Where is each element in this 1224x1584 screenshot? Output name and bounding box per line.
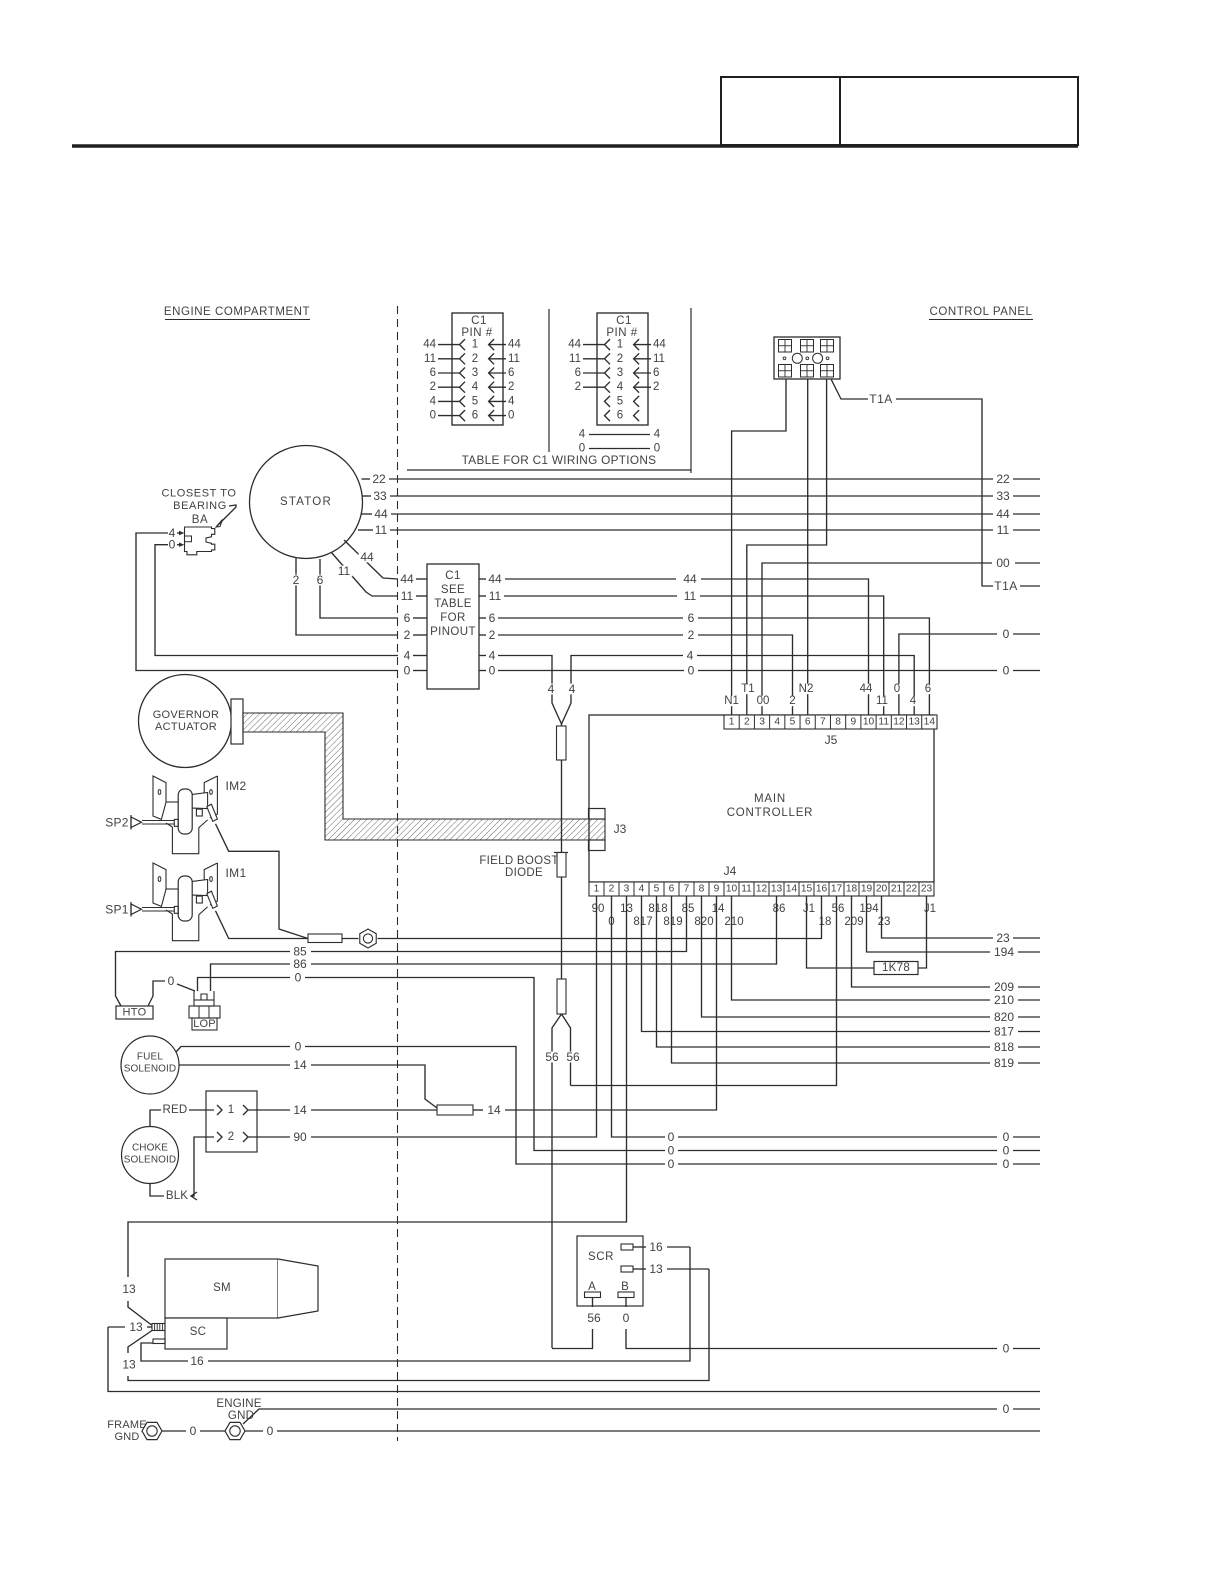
- wire 44 (stator to C1): [344, 540, 398, 579]
- svg-text:SP2: SP2: [105, 815, 129, 829]
- svg-text:12: 12: [893, 717, 905, 728]
- svg-text:BEARING: BEARING: [173, 500, 227, 512]
- svg-text:J1: J1: [924, 903, 936, 915]
- fuse F1: [557, 724, 567, 852]
- wire 0 (HTO to LOP): [148, 974, 195, 1006]
- svg-text:6: 6: [508, 367, 514, 379]
- svg-text:19: 19: [861, 884, 873, 895]
- svg-text:13: 13: [129, 1320, 143, 1334]
- wire 22: [362, 472, 1041, 486]
- svg-text:RED: RED: [163, 1104, 188, 1116]
- choke solenoid: [122, 1127, 179, 1184]
- connector C1 wiring table 2: [568, 313, 666, 425]
- svg-text:J1: J1: [803, 903, 815, 915]
- wire T1 (T1A to J5-2): [747, 379, 827, 715]
- svg-text:2: 2: [789, 695, 795, 707]
- svg-text:1: 1: [472, 339, 478, 351]
- generator stator: [250, 446, 363, 559]
- svg-text:2: 2: [430, 381, 436, 393]
- svg-text:56: 56: [545, 1050, 559, 1064]
- svg-text:0: 0: [169, 538, 176, 552]
- node 6 (C1 left): [402, 611, 427, 625]
- svg-text:4: 4: [774, 717, 780, 728]
- svg-text:14: 14: [924, 717, 936, 728]
- wire 2 (C1 to J5-5): [479, 628, 793, 715]
- svg-text:0: 0: [295, 971, 302, 985]
- wire 56 (SCR-A): [552, 1298, 602, 1349]
- svg-text:90: 90: [592, 903, 605, 915]
- wire 817 (J4-4): [642, 896, 1041, 1039]
- wire 13 (splice to SCR-B): [121, 1269, 709, 1381]
- svg-text:3: 3: [472, 367, 478, 379]
- wire 0 (LOP to panel): [198, 971, 1041, 1158]
- resistor (choke lead): [437, 1105, 473, 1115]
- svg-text:2: 2: [293, 573, 300, 587]
- svg-text:56: 56: [832, 903, 845, 915]
- svg-text:20: 20: [876, 884, 888, 895]
- svg-text:CLOSEST TO: CLOSEST TO: [161, 488, 236, 500]
- svg-text:TABLE: TABLE: [434, 598, 472, 610]
- svg-text:SC: SC: [190, 1326, 207, 1338]
- svg-text:818: 818: [994, 1040, 1014, 1054]
- wire 13 (splice to frame strap): [108, 1320, 1040, 1392]
- svg-text:13: 13: [122, 1282, 136, 1296]
- fuel solenoid: [121, 1036, 179, 1094]
- ignition module IM1: [105, 863, 246, 941]
- svg-text:4: 4: [654, 429, 661, 441]
- svg-text:2: 2: [575, 381, 581, 393]
- svg-text:B: B: [621, 1281, 629, 1293]
- svg-text:14: 14: [293, 1103, 307, 1117]
- svg-text:86: 86: [773, 903, 786, 915]
- svg-text:0: 0: [295, 1040, 302, 1054]
- svg-text:GOVERNOR: GOVERNOR: [153, 709, 220, 721]
- svg-text:44: 44: [360, 550, 374, 564]
- svg-text:1: 1: [617, 339, 623, 351]
- wire labels below J4: [590, 903, 938, 928]
- svg-text:A: A: [588, 1281, 596, 1293]
- svg-text:J5: J5: [825, 733, 838, 747]
- wire 0 (engine gnd to panel): [243, 1402, 1040, 1424]
- wire 13 (J4-3 to splice): [121, 896, 627, 1325]
- svg-text:818: 818: [648, 903, 667, 915]
- connector J3: [589, 809, 627, 851]
- svg-text:10: 10: [726, 884, 738, 895]
- svg-text:11: 11: [684, 589, 697, 603]
- diode D2 (56 feed): [557, 979, 566, 1014]
- wire 11 (C1 to J5-11): [479, 589, 884, 715]
- wire 14 (to J4-9): [473, 896, 717, 1117]
- wire 0 (frame to engine gnd): [162, 1424, 225, 1438]
- svg-text:MAIN: MAIN: [754, 793, 786, 805]
- svg-text:T1A: T1A: [994, 579, 1018, 593]
- svg-text:0: 0: [168, 974, 175, 988]
- svg-text:6: 6: [575, 367, 581, 379]
- svg-text:0: 0: [668, 1144, 675, 1158]
- svg-text:1: 1: [228, 1104, 234, 1116]
- svg-text:6: 6: [925, 683, 931, 695]
- svg-text:C1: C1: [471, 315, 487, 327]
- svg-text:23: 23: [878, 916, 891, 928]
- harness J3 (hatched): [243, 713, 605, 840]
- svg-text:ENGINE: ENGINE: [216, 1398, 261, 1410]
- svg-text:ENGINE COMPARTMENT: ENGINE COMPARTMENT: [164, 306, 310, 318]
- svg-text:44: 44: [508, 339, 521, 351]
- wire 6 (C1 to J5-14): [479, 611, 929, 715]
- svg-text:10: 10: [863, 717, 875, 728]
- wire N1 (T1A to J5-1): [732, 379, 786, 715]
- svg-text:56: 56: [566, 1050, 580, 1064]
- svg-text:5: 5: [790, 717, 796, 728]
- main controller: [589, 715, 934, 882]
- svg-text:0: 0: [1003, 1342, 1010, 1356]
- svg-text:6: 6: [653, 367, 659, 379]
- svg-text:21: 21: [891, 884, 903, 895]
- svg-text:4: 4: [430, 395, 437, 407]
- svg-text:0: 0: [623, 1311, 630, 1325]
- svg-text:13: 13: [908, 717, 920, 728]
- svg-text:85: 85: [682, 903, 695, 915]
- svg-text:4: 4: [569, 682, 576, 696]
- svg-text:2: 2: [404, 628, 411, 642]
- wire 33: [363, 489, 1041, 503]
- svg-text:23: 23: [996, 931, 1010, 945]
- wire 44 (C1 to J5-10): [479, 572, 869, 715]
- wire 11 (stator to panel): [358, 523, 1040, 537]
- svg-text:2: 2: [472, 353, 478, 365]
- svg-text:DIODE: DIODE: [505, 867, 543, 879]
- svg-text:8: 8: [699, 884, 705, 895]
- node 11 (C1 left): [399, 589, 427, 603]
- svg-text:13: 13: [771, 884, 783, 895]
- svg-text:194: 194: [994, 945, 1014, 959]
- wire 90 (choke pin 2 to J4-1): [248, 896, 597, 1144]
- resistor (ignition lead): [308, 934, 342, 943]
- svg-text:16: 16: [190, 1354, 204, 1368]
- svg-text:22: 22: [372, 472, 386, 486]
- svg-text:16: 16: [649, 1240, 663, 1254]
- svg-text:00: 00: [996, 556, 1010, 570]
- wire 194 (J4-19): [867, 896, 1041, 959]
- svg-text:T1A: T1A: [869, 392, 893, 406]
- svg-text:11: 11: [876, 695, 888, 707]
- svg-text:820: 820: [694, 916, 713, 928]
- svg-text:11: 11: [878, 717, 889, 728]
- svg-text:2: 2: [228, 1131, 234, 1143]
- svg-text:11: 11: [338, 564, 351, 578]
- wire 86 (LOP to J4-13): [211, 896, 777, 991]
- svg-text:SM: SM: [213, 1282, 231, 1294]
- svg-text:HTO: HTO: [123, 1007, 147, 1019]
- svg-text:4: 4: [404, 649, 411, 663]
- svg-text:22: 22: [996, 472, 1010, 486]
- svg-text:18: 18: [846, 884, 858, 895]
- svg-text:0: 0: [489, 664, 496, 678]
- svg-text:44: 44: [996, 507, 1010, 521]
- svg-text:11: 11: [401, 589, 414, 603]
- svg-text:4: 4: [910, 695, 917, 707]
- svg-text:3: 3: [759, 717, 765, 728]
- wire 00 (J5-3 to panel): [762, 556, 1040, 715]
- svg-text:5: 5: [617, 395, 623, 407]
- svg-text:2: 2: [489, 628, 496, 642]
- engine compartment boundary (dashed): [397, 306, 399, 1441]
- svg-text:3: 3: [624, 884, 630, 895]
- svg-text:PIN #: PIN #: [606, 327, 637, 339]
- svg-text:44: 44: [488, 572, 502, 586]
- wire IM2 to splice: [216, 824, 309, 939]
- svg-text:44: 44: [860, 683, 873, 695]
- svg-text:9: 9: [714, 884, 720, 895]
- svg-text:CONTROLLER: CONTROLLER: [727, 807, 814, 819]
- frame ground: [107, 1419, 162, 1443]
- svg-text:18: 18: [819, 916, 832, 928]
- svg-text:56: 56: [587, 1311, 601, 1325]
- svg-text:11: 11: [569, 353, 581, 365]
- svg-text:14: 14: [786, 884, 798, 895]
- svg-text:0: 0: [1003, 1130, 1010, 1144]
- wire 210 (J4-10): [732, 896, 1041, 1007]
- wire 820 (J4-8): [702, 896, 1041, 1024]
- svg-text:0: 0: [688, 664, 695, 678]
- svg-text:SCR: SCR: [588, 1251, 614, 1263]
- svg-text:6: 6: [669, 884, 675, 895]
- svg-text:820: 820: [994, 1010, 1014, 1024]
- svg-text:8: 8: [835, 717, 841, 728]
- wire 16 (SCR): [633, 1240, 690, 1254]
- svg-text:44: 44: [653, 339, 666, 351]
- connector C1 wiring table 1: [423, 313, 521, 425]
- svg-text:4: 4: [508, 395, 515, 407]
- ignition module IM2: [105, 776, 246, 854]
- svg-text:819: 819: [994, 1056, 1014, 1070]
- wire 13 (SCR): [633, 1262, 709, 1276]
- svg-text:GND: GND: [114, 1431, 139, 1443]
- svg-text:22: 22: [906, 884, 918, 895]
- svg-text:11: 11: [375, 523, 388, 537]
- wire 18 (to J4-16): [378, 896, 822, 939]
- switch HTO: [116, 1006, 153, 1019]
- SCR module: [577, 1236, 643, 1306]
- svg-text:PIN #: PIN #: [461, 327, 492, 339]
- svg-text:4: 4: [617, 381, 624, 393]
- node labels above J5: [723, 683, 932, 707]
- svg-text:6: 6: [617, 410, 623, 422]
- svg-text:13: 13: [122, 1358, 136, 1372]
- svg-text:44: 44: [374, 507, 388, 521]
- wire J1 (J4-15 to 1K78): [807, 896, 875, 968]
- svg-text:817: 817: [994, 1025, 1014, 1039]
- governor actuator: [139, 675, 244, 768]
- svg-text:6: 6: [688, 611, 695, 625]
- svg-text:4: 4: [687, 649, 694, 663]
- wire J1 (J4-23 to 1K78): [918, 896, 927, 968]
- svg-text:817: 817: [633, 916, 652, 928]
- svg-text:6: 6: [317, 573, 324, 587]
- svg-text:FUEL: FUEL: [137, 1052, 164, 1063]
- svg-text:4: 4: [489, 649, 496, 663]
- svg-text:210: 210: [724, 916, 743, 928]
- connector T1A: [774, 337, 840, 379]
- wire 0 (BA): [155, 538, 398, 656]
- wire 85 (HTO to J4-7): [116, 896, 687, 1006]
- wire BLK: [150, 1137, 214, 1202]
- wire 56 pair: [544, 1014, 582, 1348]
- wire 14 (fuel solenoid): [179, 1058, 437, 1108]
- svg-text:0: 0: [1003, 1402, 1010, 1416]
- svg-text:0: 0: [1003, 1144, 1010, 1158]
- nut terminal: [342, 929, 376, 948]
- wire 4 (C1 to J5-13): [571, 649, 914, 716]
- svg-text:17: 17: [831, 884, 843, 895]
- svg-text:2: 2: [653, 381, 659, 393]
- svg-text:2: 2: [508, 381, 514, 393]
- svg-text:23: 23: [921, 884, 933, 895]
- svg-text:33: 33: [373, 489, 387, 503]
- svg-text:0: 0: [668, 1130, 675, 1144]
- starter contactor SC: [153, 1318, 227, 1349]
- svg-text:J4: J4: [724, 864, 737, 878]
- svg-text:11: 11: [741, 884, 752, 895]
- svg-text:2: 2: [744, 717, 750, 728]
- svg-text:4: 4: [579, 429, 586, 441]
- svg-text:7: 7: [820, 717, 826, 728]
- svg-text:9: 9: [850, 717, 856, 728]
- svg-text:11: 11: [489, 589, 502, 603]
- wire 0 bus (C1 to control panel): [479, 664, 1040, 678]
- svg-text:GND: GND: [228, 1410, 254, 1422]
- svg-text:IM2: IM2: [226, 779, 247, 793]
- sensor BA (closest to bearing): [161, 488, 236, 555]
- svg-text:5: 5: [472, 395, 478, 407]
- label ENGINE COMPARTMENT: [164, 306, 310, 320]
- svg-text:11: 11: [653, 353, 665, 365]
- svg-text:0: 0: [430, 410, 436, 422]
- svg-text:0: 0: [267, 1424, 274, 1438]
- svg-text:210: 210: [994, 993, 1014, 1007]
- svg-text:14: 14: [712, 903, 725, 915]
- svg-text:6: 6: [430, 367, 436, 379]
- connector (choke): [206, 1091, 257, 1152]
- C1 table separator lines: [407, 308, 691, 473]
- svg-text:33: 33: [996, 489, 1010, 503]
- connector C1 (see table for pinout): [427, 564, 479, 689]
- svg-text:N2: N2: [799, 683, 814, 695]
- svg-text:0: 0: [1003, 1157, 1010, 1171]
- wire 0 (table option): [579, 443, 660, 455]
- svg-text:6: 6: [404, 611, 411, 625]
- svg-text:7: 7: [684, 884, 690, 895]
- svg-text:0: 0: [508, 410, 514, 422]
- svg-text:194: 194: [859, 903, 879, 915]
- svg-text:6: 6: [472, 410, 478, 422]
- svg-text:11: 11: [508, 353, 520, 365]
- svg-text:6: 6: [805, 717, 811, 728]
- wire T1A: [831, 379, 1040, 593]
- wire 11 (stator to C1): [331, 552, 398, 596]
- svg-text:CONTROL PANEL: CONTROL PANEL: [929, 306, 1032, 318]
- connector J4: [589, 864, 934, 896]
- wire 14 (choke pin 1): [248, 1103, 437, 1117]
- switch LOP: [189, 991, 220, 1030]
- svg-text:FRAME: FRAME: [107, 1419, 147, 1431]
- engine ground: [216, 1398, 261, 1440]
- svg-text:FIELD BOOST: FIELD BOOST: [479, 855, 558, 867]
- svg-text:4: 4: [472, 381, 479, 393]
- svg-text:T1: T1: [741, 683, 754, 695]
- svg-text:44: 44: [683, 572, 697, 586]
- svg-text:2: 2: [609, 884, 615, 895]
- wire 23 (J4-20): [882, 896, 1041, 945]
- wire 818 (J4-5): [657, 896, 1041, 1054]
- node 44 (C1 left): [399, 572, 427, 586]
- wire 6 (stator to C1): [315, 559, 398, 618]
- wire N2 (T1A to J5-6): [807, 379, 809, 715]
- wire 819 (J4-6): [672, 896, 1041, 1070]
- svg-text:BLK: BLK: [166, 1190, 188, 1202]
- svg-text:0: 0: [1003, 664, 1010, 678]
- wire IM1 to resistor: [216, 911, 309, 939]
- wire 0 (SCR-B to panel): [621, 1298, 1040, 1356]
- wire 44 (stator to panel): [362, 507, 1041, 521]
- svg-text:44: 44: [423, 339, 436, 351]
- svg-text:5: 5: [654, 884, 660, 895]
- svg-text:1: 1: [729, 717, 735, 728]
- svg-text:0: 0: [894, 683, 900, 695]
- svg-text:6: 6: [489, 611, 496, 625]
- svg-text:SP1: SP1: [105, 902, 129, 916]
- resistor 1K78: [874, 962, 918, 975]
- svg-text:15: 15: [801, 884, 813, 895]
- wire 4 pair (to fuse): [546, 682, 576, 724]
- svg-text:4: 4: [639, 884, 645, 895]
- svg-text:SEE: SEE: [441, 584, 465, 596]
- wire 209 (J4-18): [852, 896, 1041, 994]
- wire 0 (J5-12 to panel): [899, 627, 1040, 715]
- wire RED: [150, 1104, 214, 1126]
- svg-text:86: 86: [293, 957, 307, 971]
- label CONTROL PANEL: [929, 306, 1033, 320]
- svg-text:4: 4: [548, 682, 555, 696]
- svg-text:N1: N1: [724, 695, 739, 707]
- svg-text:CHOKE: CHOKE: [132, 1143, 168, 1154]
- svg-text:44: 44: [400, 572, 414, 586]
- wire 2 (stator to C1): [291, 557, 398, 635]
- svg-text:1K78: 1K78: [882, 962, 910, 974]
- starter motor SM: [165, 1259, 318, 1318]
- svg-text:819: 819: [663, 916, 682, 928]
- wire 4 (C1, field boost branch): [479, 649, 552, 697]
- node 2 (C1 left): [402, 628, 427, 642]
- wire 4 (BA): [136, 526, 398, 671]
- wire 16 (SC to SCR): [141, 1247, 690, 1368]
- svg-text:0: 0: [190, 1424, 197, 1438]
- svg-text:C1: C1: [445, 570, 461, 582]
- svg-text:0: 0: [404, 664, 411, 678]
- svg-text:11: 11: [997, 523, 1010, 537]
- svg-text:SOLENOID: SOLENOID: [124, 1155, 176, 1166]
- svg-text:IM1: IM1: [226, 866, 247, 880]
- svg-text:0: 0: [1003, 627, 1010, 641]
- svg-text:2: 2: [617, 353, 623, 365]
- svg-text:2: 2: [688, 628, 695, 642]
- splice (starter 13): [152, 1324, 165, 1331]
- svg-text:16: 16: [816, 884, 828, 895]
- svg-text:13: 13: [649, 1262, 663, 1276]
- wire 56 (to J4-17): [571, 896, 837, 1086]
- svg-text:11: 11: [424, 353, 436, 365]
- connector J5: [724, 715, 937, 747]
